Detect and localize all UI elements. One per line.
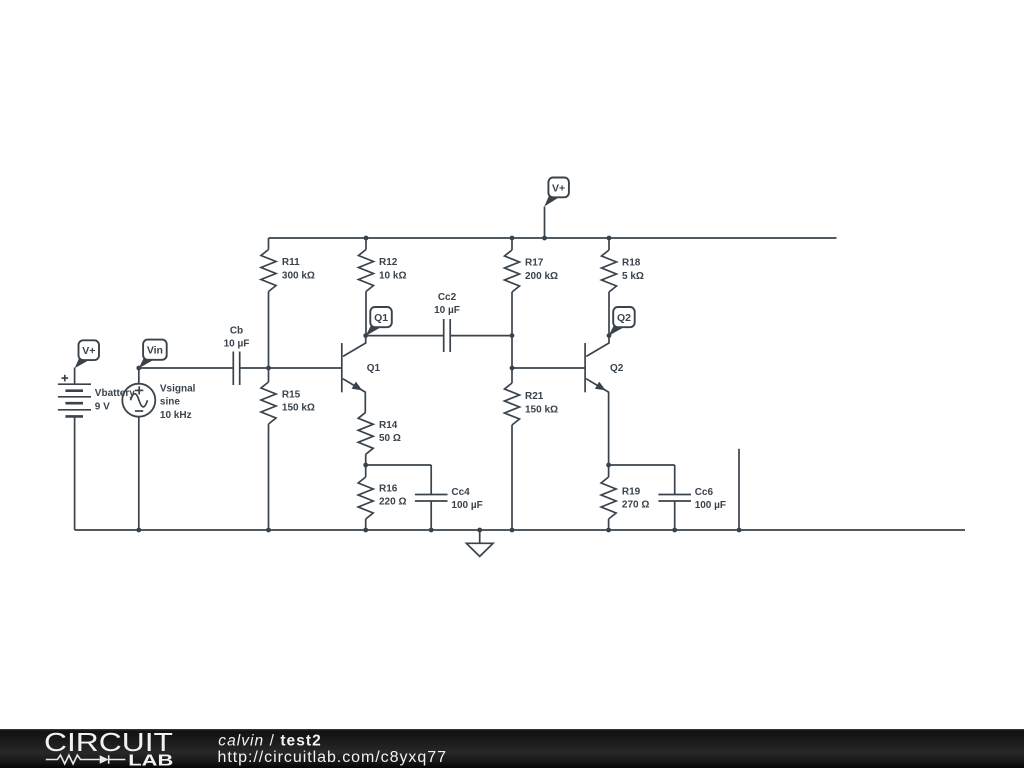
svg-text:Q2: Q2	[610, 363, 624, 374]
svg-text:Cc4: Cc4	[451, 487, 470, 498]
svg-text:Vin: Vin	[147, 345, 163, 357]
svg-text:Q1: Q1	[367, 363, 381, 374]
svg-text:200 kΩ: 200 kΩ	[525, 271, 558, 282]
svg-text:V+: V+	[82, 345, 95, 357]
svg-text:Vsignal: Vsignal	[160, 384, 196, 395]
svg-text:R11: R11	[282, 257, 300, 268]
svg-text:sine: sine	[160, 397, 180, 408]
svg-text:LAB: LAB	[128, 753, 173, 768]
svg-text:R12: R12	[379, 257, 398, 268]
svg-text:10 kHz: 10 kHz	[160, 410, 192, 421]
svg-text:calvin / test2: calvin / test2	[218, 733, 321, 750]
svg-text:V+: V+	[552, 182, 565, 194]
svg-text:R21: R21	[525, 391, 544, 402]
svg-text:100 µF: 100 µF	[451, 500, 482, 511]
svg-text:R16: R16	[379, 483, 398, 494]
svg-text:5 kΩ: 5 kΩ	[622, 271, 644, 282]
svg-text:Q2: Q2	[617, 312, 631, 324]
svg-text:R14: R14	[379, 420, 398, 431]
svg-text:Q1: Q1	[374, 312, 388, 324]
svg-text:R18: R18	[622, 258, 641, 269]
svg-text:220 Ω: 220 Ω	[379, 496, 406, 507]
svg-text:100 µF: 100 µF	[695, 500, 726, 511]
svg-text:270 Ω: 270 Ω	[622, 500, 649, 511]
svg-text:10 µF: 10 µF	[434, 305, 460, 316]
svg-text:150 kΩ: 150 kΩ	[525, 404, 558, 415]
svg-text:R15: R15	[282, 390, 301, 401]
svg-text:10 kΩ: 10 kΩ	[379, 270, 406, 281]
svg-text:R17: R17	[525, 258, 544, 269]
svg-text:50 Ω: 50 Ω	[379, 433, 401, 444]
svg-text:10 µF: 10 µF	[224, 339, 250, 350]
svg-text:http://circuitlab.com/c8yxq77: http://circuitlab.com/c8yxq77	[218, 749, 447, 766]
svg-text:9 V: 9 V	[95, 401, 110, 412]
svg-text:Cc6: Cc6	[695, 487, 714, 498]
svg-text:300 kΩ: 300 kΩ	[282, 270, 315, 281]
svg-text:Cb: Cb	[230, 326, 243, 337]
svg-text:Cc2: Cc2	[438, 292, 457, 303]
svg-text:Vbattery: Vbattery	[95, 388, 135, 399]
svg-text:R19: R19	[622, 487, 641, 498]
svg-text:150 kΩ: 150 kΩ	[282, 403, 315, 414]
